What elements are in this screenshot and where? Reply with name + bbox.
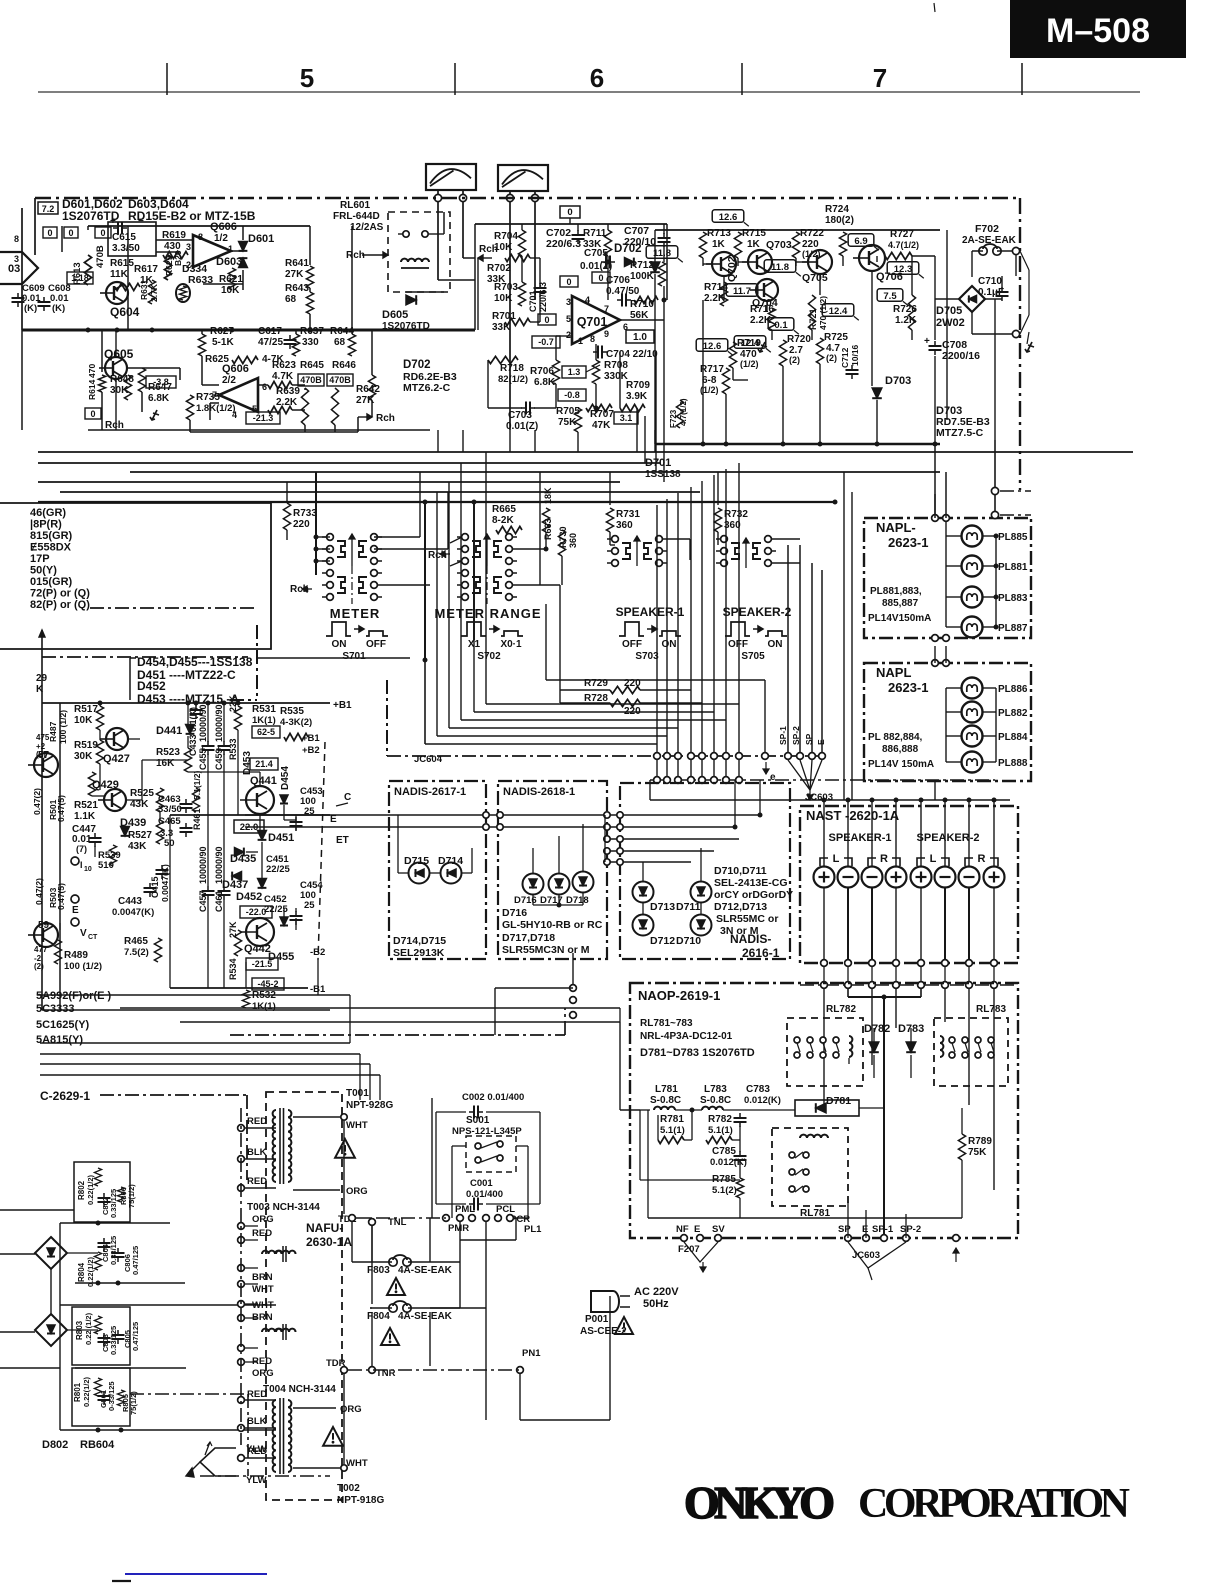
relay RL783 box	[934, 1018, 1008, 1086]
bus junctions	[423, 500, 428, 505]
svg-text:PL882: PL882	[998, 708, 1028, 719]
svg-text:D716: D716	[502, 907, 527, 919]
dash-dot border switch block	[256, 625, 258, 700]
svg-text:0.22(1/2): 0.22(1/2)	[82, 1376, 91, 1407]
ground f	[152, 410, 157, 420]
speaker terminals	[814, 867, 835, 888]
svg-text:11.8: 11.8	[653, 248, 671, 259]
value box 62.5	[252, 726, 280, 738]
svg-text:MTZ7.5-C: MTZ7.5-C	[936, 427, 984, 439]
svg-text:0.012(K): 0.012(K)	[744, 1095, 781, 1106]
transformer T002	[273, 1400, 276, 1472]
svg-text:5A815(Y): 5A815(Y)	[36, 1034, 83, 1046]
svg-text:470 (1/2): 470 (1/2)	[818, 296, 828, 330]
svg-text:2.2K: 2.2K	[276, 397, 298, 408]
svg-text:10000/90: 10000/90	[198, 846, 208, 884]
svg-text:D714: D714	[438, 855, 463, 867]
svg-text:C703: C703	[508, 410, 532, 421]
ground f small	[760, 342, 765, 352]
svg-text:2200/16: 2200/16	[942, 350, 980, 362]
capacitor C712 10/16	[846, 369, 859, 371]
svg-text:2616-1: 2616-1	[742, 946, 780, 960]
verticals from amp to JC604	[656, 505, 658, 752]
transistor Q441	[246, 786, 274, 814]
power mid wires	[431, 1098, 433, 1218]
svg-text:0.47/125: 0.47/125	[131, 1322, 140, 1351]
bridge rectifier D705 2W02	[959, 286, 985, 312]
svg-text:0.33/125: 0.33/125	[109, 1326, 118, 1355]
svg-text:2: 2	[566, 330, 571, 340]
svg-text:NAPL: NAPL	[876, 665, 911, 680]
grid tick 5/6	[454, 63, 456, 95]
svg-text:C615: C615	[112, 232, 136, 243]
svg-text:C415: C415	[150, 876, 160, 898]
resistor R629	[164, 255, 171, 280]
svg-text:RED: RED	[247, 1116, 267, 1127]
svg-text:3.1: 3.1	[620, 413, 633, 423]
svg-text:R639: R639	[276, 386, 300, 397]
wire long bus A	[38, 451, 1133, 453]
resistor R789 75K	[958, 1134, 965, 1160]
svg-text:JC604: JC604	[414, 754, 443, 765]
diode D605	[406, 295, 416, 305]
svg-text:D605: D605	[382, 309, 408, 321]
svg-text:C002 0.01/400: C002 0.01/400	[462, 1092, 524, 1103]
svg-text:PL14V150mA: PL14V150mA	[868, 613, 931, 624]
diode D717	[549, 874, 570, 895]
svg-text:S702: S702	[477, 651, 501, 662]
svg-text:CT: CT	[88, 934, 98, 941]
bridge rectifier RB left lower	[35, 1314, 67, 1346]
connector JC603 fanout	[788, 760, 822, 790]
svg-text:27K: 27K	[285, 269, 304, 280]
module NADIS-2618-1 box	[498, 781, 607, 959]
value box 12.4 a	[822, 304, 854, 317]
svg-text:1.8K(1/2): 1.8K(1/2)	[196, 403, 236, 414]
capacitor C701 220/6.3 vertical	[534, 287, 547, 289]
value box 11.8 mid	[764, 260, 796, 273]
svg-text:F723: F723	[669, 409, 678, 428]
svg-text:WHT: WHT	[346, 1458, 368, 1469]
svg-text:R663: R663	[543, 518, 553, 540]
fuse F803	[389, 1258, 397, 1266]
svg-text:F804: F804	[367, 1311, 390, 1322]
svg-text:PL14V 150mA: PL14V 150mA	[868, 759, 934, 770]
svg-text:47/25: 47/25	[258, 337, 283, 348]
svg-text:Rch: Rch	[479, 244, 498, 255]
op-amp Q701	[572, 296, 620, 344]
svg-text:21.4: 21.4	[255, 759, 273, 769]
svg-text:R521: R521	[74, 800, 98, 811]
svg-text:CORPORATION: CORPORATION	[858, 1481, 1130, 1527]
value box -0.8	[558, 389, 586, 401]
amplifier block border top	[35, 197, 1020, 199]
svg-text:50: 50	[164, 838, 175, 849]
value box 11.8 left	[646, 246, 678, 259]
svg-text:Q703: Q703	[766, 239, 792, 251]
svg-text:43K: 43K	[128, 841, 147, 852]
naop wires	[640, 1109, 650, 1111]
wire verticals switch area down	[539, 472, 541, 585]
svg-text:D451: D451	[268, 832, 294, 844]
svg-text:10: 10	[84, 866, 92, 873]
nast long feed verticals	[843, 472, 845, 800]
svg-text:R645: R645	[300, 360, 324, 371]
rail -B1	[170, 987, 308, 989]
svg-text:470B: 470B	[95, 245, 106, 268]
svg-text:0.01(Z): 0.01(Z)	[506, 421, 538, 432]
svg-text:R643: R643	[285, 283, 309, 294]
resistor R614 470	[98, 375, 105, 392]
svg-text:5: 5	[566, 314, 571, 324]
value box 22.0	[234, 820, 264, 833]
svg-text:D712: D712	[650, 935, 675, 947]
svg-text:+: +	[216, 744, 221, 754]
svg-text:METER: METER	[330, 606, 381, 621]
value box 0 mid2	[592, 272, 610, 283]
transistor Q442	[246, 918, 274, 946]
svg-text:R725: R725	[824, 332, 848, 343]
value box 0 lower	[85, 408, 101, 419]
value box 1.18	[67, 272, 93, 284]
svg-text:R720: R720	[787, 334, 811, 345]
svg-text:7.5(2): 7.5(2)	[124, 947, 149, 958]
svg-text:D435: D435	[230, 853, 256, 865]
diode D714	[441, 863, 462, 884]
value box 1.0	[626, 330, 654, 343]
svg-text:Rch: Rch	[376, 413, 395, 424]
diode D452 zener	[258, 879, 267, 888]
svg-text:D710,D711: D710,D711	[714, 865, 767, 877]
bottom-left corner mark	[112, 1580, 131, 1582]
value box -21.5	[246, 958, 278, 970]
svg-text:82(P) or (Q): 82(P) or (Q)	[30, 599, 90, 611]
svg-text:X0·1: X0·1	[500, 639, 522, 650]
svg-text:NAPL-: NAPL-	[876, 520, 916, 535]
transistor Q604	[106, 282, 128, 304]
value box 11.7	[726, 284, 758, 297]
svg-text:46(GR): 46(GR)	[30, 507, 66, 519]
relay RL782 box	[787, 1018, 863, 1086]
svg-text:3.3/50: 3.3/50	[112, 243, 140, 254]
wire bottom upper-left block	[88, 429, 430, 431]
circles mid bus	[570, 985, 577, 992]
svg-text:S-0.8C: S-0.8C	[700, 1095, 731, 1106]
svg-text:R804: R804	[77, 1262, 86, 1282]
svg-text:62-5: 62-5	[257, 727, 275, 737]
svg-text:D603: D603	[216, 256, 242, 268]
svg-text:ORG: ORG	[346, 1186, 368, 1197]
svg-text:6.9: 6.9	[854, 236, 867, 247]
module NADIS-2616-1 box	[620, 783, 790, 959]
bus JC604 lower row	[650, 779, 995, 781]
svg-text:50Hz: 50Hz	[643, 1298, 669, 1310]
svg-text:0.012(K): 0.012(K)	[710, 1157, 747, 1168]
svg-text:470: 470	[87, 364, 97, 378]
svg-text:10000/90: 10000/90	[214, 846, 224, 884]
svg-text:R627: R627	[210, 326, 234, 337]
svg-text:03: 03	[8, 263, 20, 275]
diode D441	[186, 725, 195, 734]
relay RL601 dashed box	[388, 212, 450, 292]
resistor R631 2.7K	[148, 280, 155, 304]
svg-text:33/50: 33/50	[158, 804, 182, 815]
wire long bus D	[38, 481, 620, 483]
svg-text:R801: R801	[73, 1382, 82, 1402]
capacitor C704 22/10	[597, 346, 599, 359]
svg-text:2623-1: 2623-1	[888, 535, 928, 550]
svg-text:0.22 (1/2): 0.22 (1/2)	[84, 1312, 93, 1345]
svg-text:-3.8: -3.8	[153, 377, 169, 387]
capacitor C708 2200/16	[929, 345, 942, 347]
diode D439	[121, 827, 130, 836]
svg-text:12.4: 12.4	[829, 306, 848, 317]
svg-text:SV: SV	[712, 1224, 725, 1235]
svg-text:10000/90: 10000/90	[214, 704, 224, 742]
svg-text:R704: R704	[494, 231, 518, 242]
svg-text:C461: C461	[214, 890, 224, 912]
svg-text:WHT: WHT	[252, 1300, 274, 1311]
svg-text:ON: ON	[768, 639, 783, 650]
svg-text:0: 0	[90, 409, 95, 419]
value box 0 mid3	[538, 314, 556, 325]
svg-text:+: +	[924, 336, 930, 347]
svg-text:R517: R517	[74, 704, 98, 715]
svg-text:72(P) or (Q): 72(P) or (Q)	[30, 588, 90, 600]
svg-text:Q606: Q606	[210, 221, 237, 233]
value box 12.6 b	[696, 339, 728, 352]
op-amp Q606 1/2	[193, 235, 231, 267]
module NAST-2620-1A box	[800, 806, 1018, 963]
svg-text:D711: D711	[676, 901, 701, 913]
switch S702 METER RANGE lower	[462, 570, 469, 577]
svg-text:D452: D452	[236, 891, 262, 903]
value box 12.4 b	[734, 336, 766, 349]
svg-text:orCY orDGorDY: orCY orDGorDY	[714, 889, 793, 901]
amplifier block border right	[1019, 198, 1021, 490]
module NAFU-2630-1A dashed box	[266, 1092, 342, 1500]
svg-text:WHT: WHT	[252, 1284, 274, 1295]
svg-text:D781~D783 1S2076TD: D781~D783 1S2076TD	[640, 1047, 755, 1059]
dashed line right side	[318, 742, 325, 960]
svg-text:4A-SE-EAK: 4A-SE-EAK	[398, 1311, 453, 1322]
svg-text:0: 0	[598, 273, 603, 283]
svg-text:477: 477	[34, 945, 48, 954]
svg-text:NPT-928G: NPT-928G	[346, 1100, 393, 1111]
wire long bus B	[38, 462, 660, 464]
svg-text:SPEAKER-1: SPEAKER-1	[616, 605, 685, 619]
resistor R613	[84, 255, 91, 285]
ground f right	[1027, 342, 1032, 352]
svg-text:S001: S001	[466, 1115, 490, 1126]
svg-text:R732: R732	[724, 509, 748, 520]
svg-text:I: I	[80, 860, 83, 870]
svg-text:S705: S705	[741, 651, 765, 662]
svg-text:1.1K: 1.1K	[74, 811, 96, 822]
svg-text:R735: R735	[196, 392, 220, 403]
value box -21.3	[246, 412, 280, 424]
svg-text:R727: R727	[890, 229, 914, 240]
svg-text:0.47/125: 0.47/125	[131, 1246, 140, 1275]
terminal Vct	[71, 918, 79, 926]
svg-text:Q605: Q605	[104, 347, 134, 361]
svg-text:Q441: Q441	[250, 775, 277, 787]
value box 0 mid1	[560, 276, 578, 287]
switch S701 arrow	[351, 534, 353, 566]
rail verticals left	[41, 630, 43, 1010]
svg-text:11.8: 11.8	[771, 262, 789, 273]
svg-text:T004 NCH-3144: T004 NCH-3144	[263, 1384, 336, 1395]
svg-text:C706: C706	[606, 275, 630, 286]
svg-text:(2): (2)	[34, 962, 44, 971]
svg-text:470B: 470B	[329, 375, 351, 385]
svg-text:D601: D601	[248, 233, 274, 245]
svg-text:3: 3	[186, 242, 191, 252]
resistor R663 vertical	[542, 508, 549, 532]
power wiring loops	[351, 1222, 353, 1262]
svg-text:PL888: PL888	[998, 758, 1028, 769]
warning triangle T001	[335, 1139, 355, 1158]
svg-text:OFF: OFF	[366, 639, 386, 650]
svg-text:22/25: 22/25	[264, 904, 288, 915]
module NADIS-2617-1 box	[389, 781, 486, 959]
resistor R733 220	[283, 503, 290, 530]
transistor Q429	[104, 789, 126, 811]
meter M601 Lch	[426, 164, 476, 190]
svg-text:NAST -2620-1A: NAST -2620-1A	[806, 808, 900, 823]
svg-text:R641: R641	[285, 258, 309, 269]
terminal brackets L R	[820, 858, 828, 866]
bus top right	[655, 229, 940, 231]
svg-text:4A-SE-EAK: 4A-SE-EAK	[398, 1265, 453, 1276]
svg-text:AC 220V: AC 220V	[634, 1286, 679, 1298]
diode D437	[232, 872, 241, 881]
diode D713	[633, 882, 654, 903]
svg-text:R: R	[880, 853, 888, 865]
svg-text:0.47(2): 0.47(2)	[32, 788, 42, 815]
svg-text:SP-1: SP-1	[872, 1224, 894, 1235]
svg-text:R707: R707	[590, 409, 614, 420]
svg-text:100 (1/2): 100 (1/2)	[64, 961, 102, 972]
svg-text:R716: R716	[750, 304, 774, 315]
svg-text:C: C	[344, 792, 351, 803]
grid tick 4/5	[166, 63, 168, 95]
svg-text:D441: D441	[156, 725, 182, 737]
svg-text:0.33/125: 0.33/125	[109, 1236, 118, 1265]
staircase wires to JC604	[424, 660, 426, 744]
diode D603	[239, 258, 248, 267]
svg-text:-0.8: -0.8	[564, 390, 580, 400]
node value box 7.2	[38, 202, 58, 214]
svg-text:FRL-644D: FRL-644D	[333, 211, 380, 222]
svg-text:L783: L783	[704, 1084, 727, 1095]
terminal I10	[71, 857, 79, 865]
svg-text:ORG: ORG	[252, 1368, 274, 1379]
svg-text:SPEAKER-2: SPEAKER-2	[917, 832, 980, 844]
svg-text:2623-1: 2623-1	[888, 680, 928, 695]
lower amp wires	[99, 703, 101, 706]
svg-text:MTZ6.2-C: MTZ6.2-C	[403, 382, 451, 394]
pilot lamps upper	[962, 526, 983, 547]
svg-text:1K: 1K	[747, 239, 761, 250]
switch row wires	[315, 472, 317, 575]
svg-text:PN1: PN1	[522, 1348, 541, 1359]
svg-text:6: 6	[590, 63, 604, 93]
diode D702b arrow	[650, 262, 660, 272]
svg-text:59: 59	[38, 920, 50, 931]
svg-text:(2): (2)	[36, 750, 46, 759]
bridge rectifier RB left upper	[35, 1237, 67, 1269]
plug P001	[591, 1291, 619, 1312]
value box 12.3	[887, 262, 919, 275]
value box 6.9	[848, 234, 874, 247]
svg-text:27K: 27K	[228, 921, 238, 938]
svg-text:PL1: PL1	[524, 1224, 542, 1235]
resistor R730 360 vertical	[558, 530, 565, 556]
svg-text:BLK: BLK	[247, 1416, 267, 1427]
svg-text:(K): (K)	[52, 303, 65, 314]
svg-text:R489: R489	[64, 950, 88, 961]
svg-text:0: 0	[544, 315, 549, 325]
svg-text:0.33/125: 0.33/125	[109, 1189, 118, 1218]
svg-text:R631: R631	[139, 279, 149, 300]
svg-text:25: 25	[304, 900, 315, 911]
svg-text:360: 360	[616, 520, 633, 531]
thick bus under right cluster	[655, 443, 940, 446]
vertical F723 resistor	[676, 400, 683, 428]
value box -0.7	[532, 336, 560, 348]
svg-text:ORG: ORG	[252, 1214, 274, 1225]
svg-text:8: 8	[590, 334, 595, 344]
svg-text:SP: SP	[838, 1224, 851, 1235]
svg-text:M–508: M–508	[1046, 12, 1150, 50]
svg-text:220: 220	[293, 519, 310, 530]
relay RL782 contacts	[794, 1037, 800, 1043]
svg-text:RL783: RL783	[976, 1004, 1006, 1015]
dash-dot stub left	[90, 607, 258, 609]
resistor R718 82(1/2)	[488, 356, 518, 363]
svg-text:C710: C710	[978, 276, 1002, 287]
svg-text:+: +	[200, 744, 205, 754]
parts list box	[0, 503, 271, 649]
svg-text:ET: ET	[336, 835, 349, 846]
svg-text:R703: R703	[494, 282, 518, 293]
svg-text:1/2: 1/2	[214, 233, 228, 244]
diode D451 zener	[258, 831, 267, 840]
svg-text:S-0.8C: S-0.8C	[650, 1095, 681, 1106]
svg-text:8: 8	[14, 234, 19, 244]
svg-text:3: 3	[566, 297, 571, 307]
diode D712	[633, 915, 654, 936]
svg-text:4.7K: 4.7K	[272, 371, 294, 382]
svg-text:RED: RED	[247, 1389, 267, 1400]
svg-text:R637: R637	[300, 326, 324, 337]
diode D711	[691, 882, 712, 903]
svg-text:+B2: +B2	[302, 745, 320, 756]
svg-text:5C3333: 5C3333	[36, 1003, 75, 1015]
rail +B1	[42, 702, 330, 704]
svg-text:5: 5	[300, 63, 314, 93]
svg-text:11.7: 11.7	[733, 286, 751, 297]
svg-text:R709: R709	[626, 380, 650, 391]
svg-text:R617: R617	[134, 264, 158, 275]
svg-text:YLW: YLW	[246, 1475, 267, 1486]
switch S702 METER RANGE upper	[462, 534, 469, 541]
svg-text:22/25: 22/25	[266, 864, 290, 875]
svg-text:ON: ON	[662, 639, 677, 650]
nast feed bus	[650, 799, 1010, 801]
wire meter drops	[437, 202, 439, 280]
